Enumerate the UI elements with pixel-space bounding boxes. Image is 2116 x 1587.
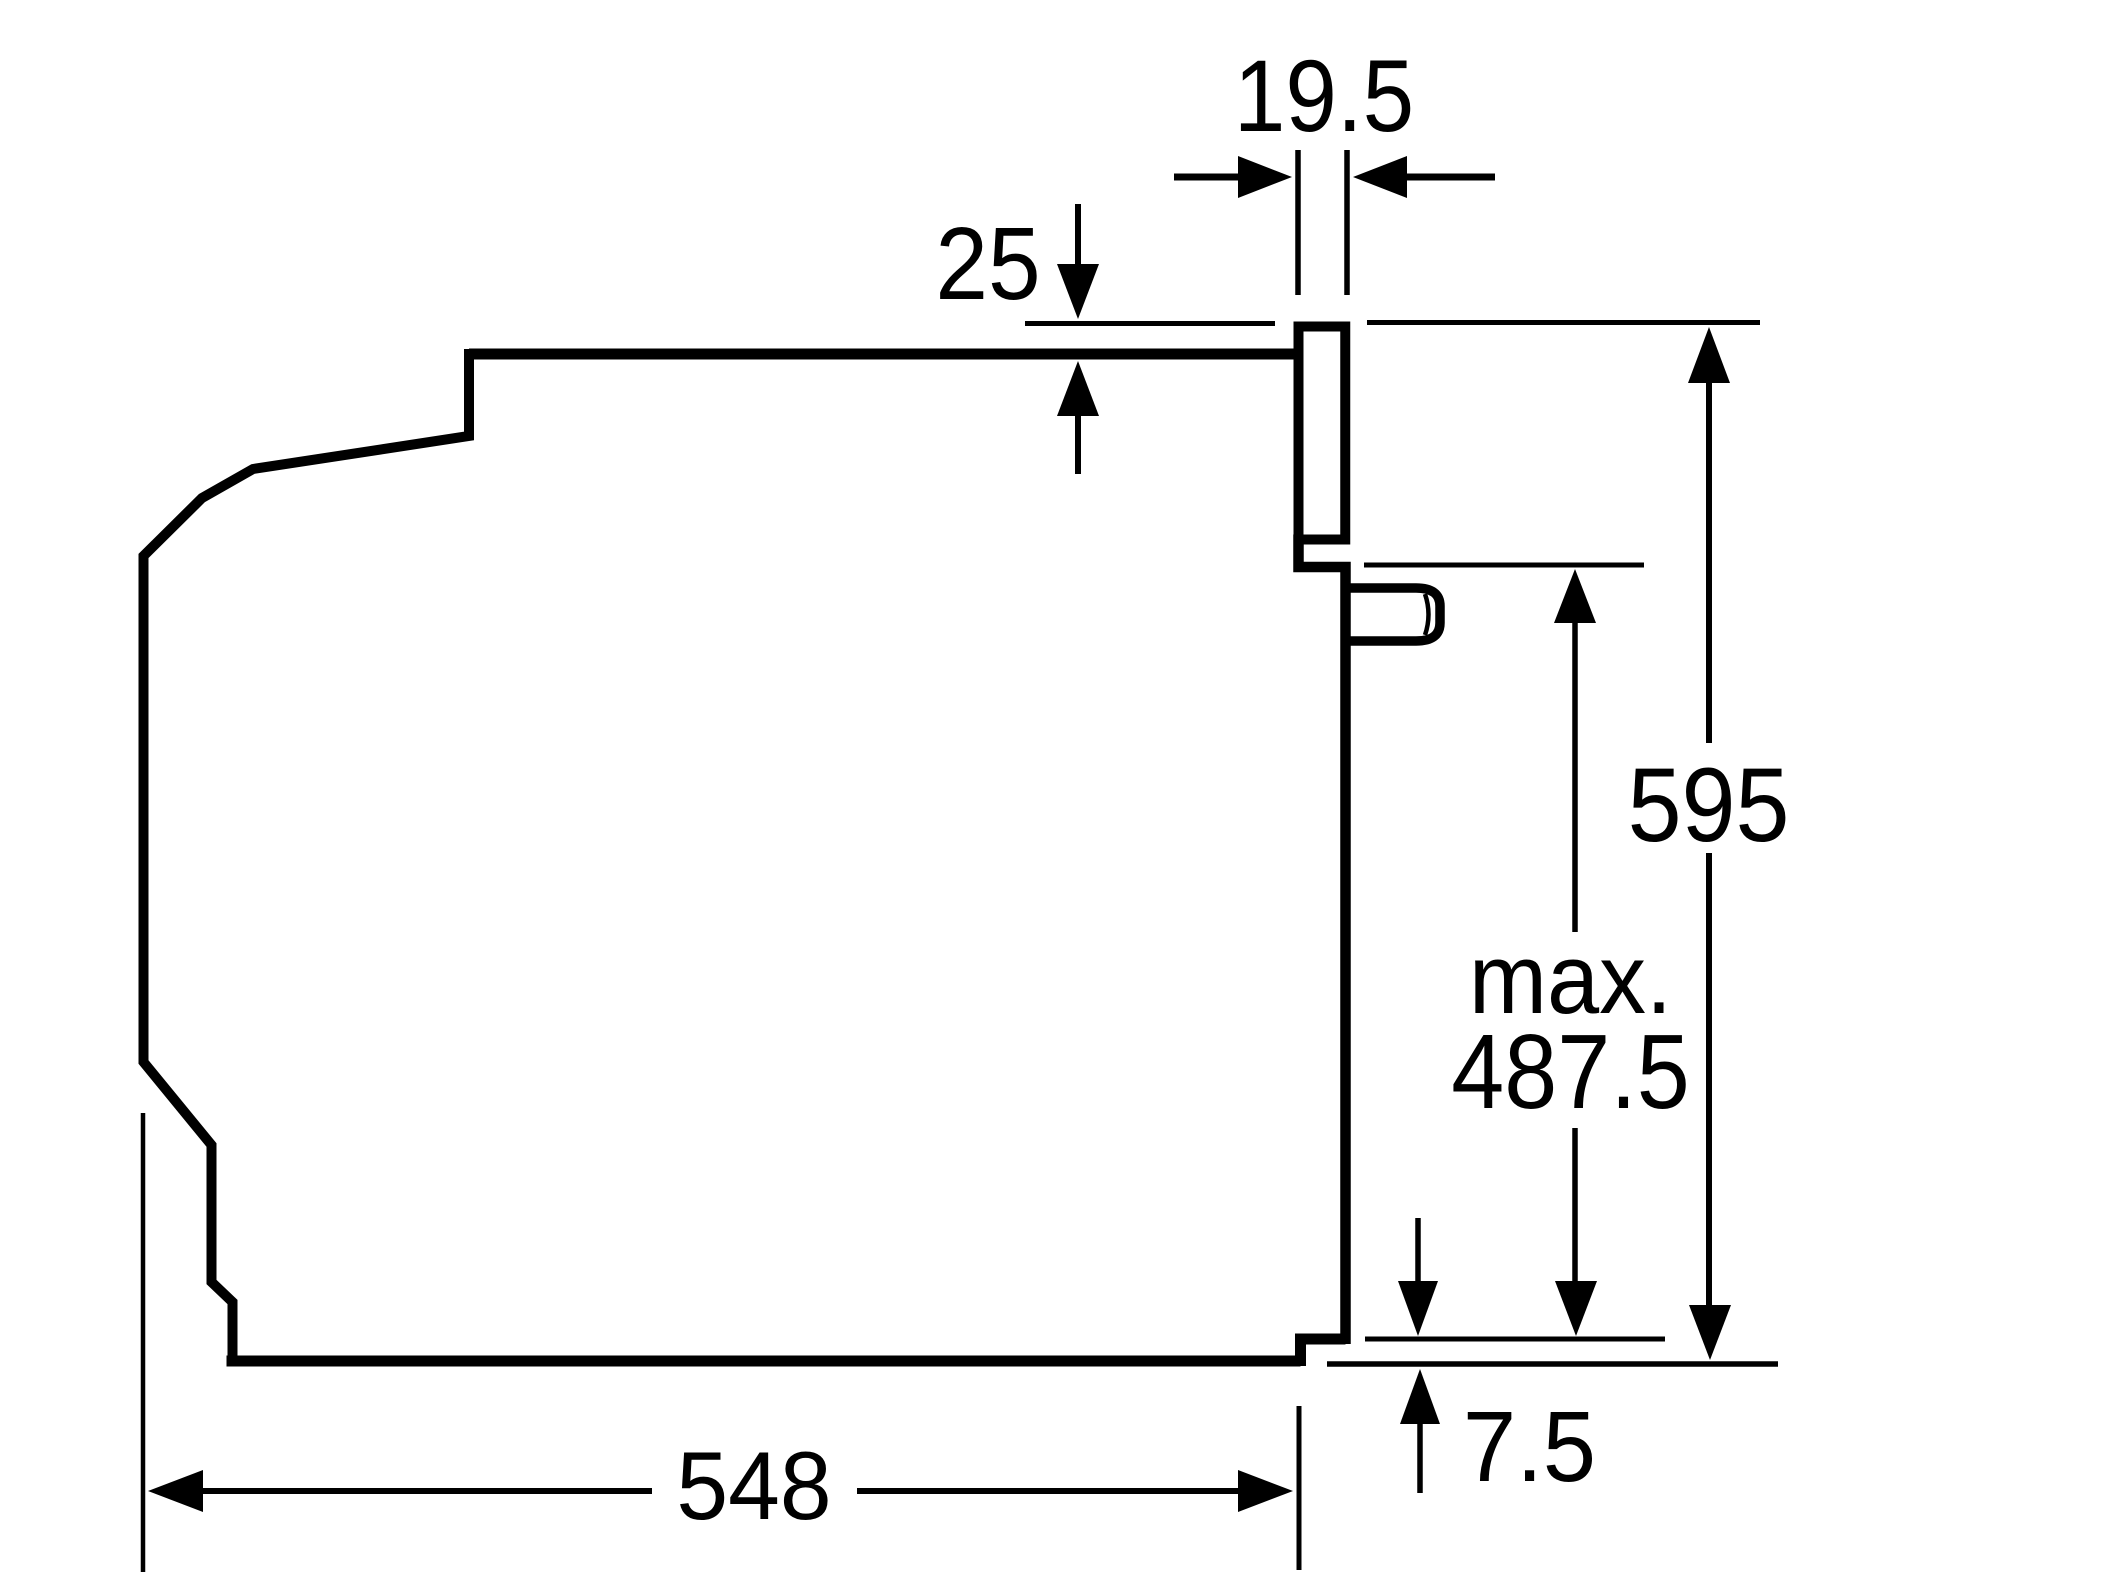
25 offset thin line — [1025, 321, 1275, 326]
19.5 dimension arrow right tail — [1406, 174, 1495, 181]
25 down arrow tail — [1075, 204, 1081, 267]
595 bottom arrowhead — [1689, 1305, 1731, 1360]
548 right arrowhead — [1238, 1470, 1293, 1512]
19.5 left arrowhead — [1238, 156, 1292, 198]
max 487.5 dimension line — [1572, 620, 1578, 1284]
oven bottom extension line — [1327, 1361, 1778, 1367]
oven body back outline — [144, 349, 470, 1361]
595 top arrowhead — [1688, 327, 1730, 383]
7.5 up arrowhead — [1400, 1369, 1440, 1424]
svg-text:7.5: 7.5 — [1463, 1390, 1596, 1502]
548 left arrowhead — [148, 1470, 203, 1512]
oven door front face — [1299, 535, 1346, 1345]
595 dimension line — [1706, 380, 1712, 1306]
548 left extension line — [141, 1113, 146, 1572]
label 487.5 — [1451, 1013, 1689, 1131]
487.5 bottom arrowhead — [1555, 1281, 1597, 1336]
door bottom extension line — [1365, 1337, 1665, 1342]
25 up arrowhead — [1057, 361, 1099, 416]
487.5 top arrowhead — [1554, 569, 1596, 623]
label 595 — [1628, 746, 1790, 863]
knob-level extension line — [1364, 563, 1644, 568]
25 down arrowhead — [1057, 264, 1099, 319]
front bottom step — [1301, 1339, 1346, 1366]
control knob — [1346, 588, 1440, 641]
label 19.5 — [1234, 39, 1414, 153]
label 25 — [935, 205, 1040, 321]
svg-text:25: 25 — [935, 205, 1040, 321]
knob highlight line — [1425, 594, 1429, 635]
furniture panel cross-section — [1299, 327, 1346, 540]
svg-text:548: 548 — [676, 1432, 831, 1540]
19.5 dimension arrow left tail — [1174, 174, 1240, 181]
label 7.5 — [1463, 1390, 1596, 1502]
svg-text:595: 595 — [1628, 746, 1790, 863]
oven bottom line — [227, 1356, 1301, 1367]
7.5 down arrow tail — [1415, 1218, 1421, 1284]
svg-text:487.5: 487.5 — [1451, 1013, 1689, 1131]
7.5 down arrowhead — [1398, 1281, 1438, 1336]
label max. — [1469, 925, 1672, 1035]
top extension line (right of panel) — [1367, 320, 1760, 325]
label 548 — [676, 1432, 831, 1540]
svg-text:19.5: 19.5 — [1234, 39, 1414, 153]
7.5 up arrow tail — [1417, 1421, 1423, 1493]
19.5 right extension line — [1344, 150, 1350, 295]
548 dimension line — [203, 1488, 1240, 1494]
25 up arrow tail — [1075, 414, 1081, 474]
19.5 left extension line — [1295, 150, 1301, 295]
19.5 right arrowhead — [1353, 156, 1407, 198]
548 right extension line — [1297, 1406, 1302, 1570]
cabinet top line — [469, 349, 1296, 360]
